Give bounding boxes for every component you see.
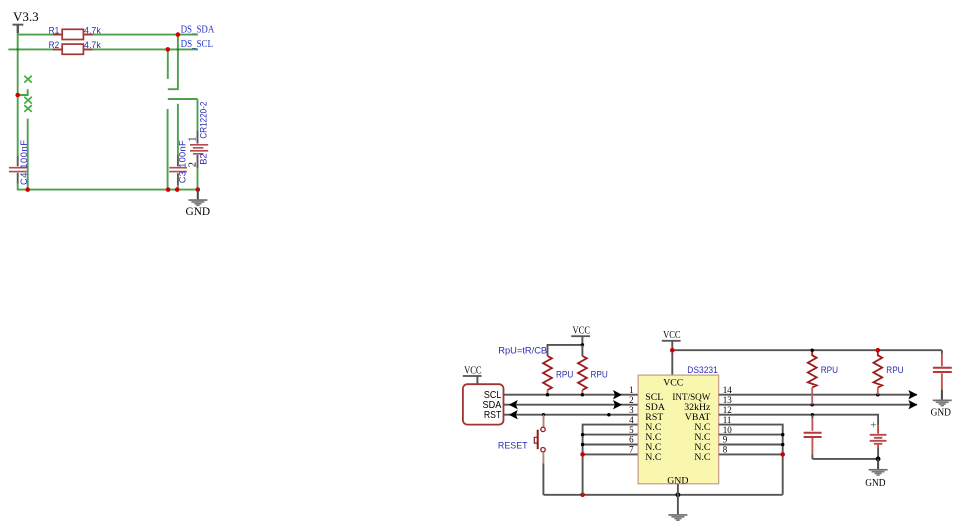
pushbutton RESET — [534, 415, 545, 464]
junction dot cap branch — [811, 413, 815, 417]
resistor R2 — [53, 44, 93, 54]
svg-text:14: 14 — [723, 385, 733, 395]
resistor RPU (2) — [578, 356, 587, 390]
svg-text:R1: R1 — [49, 25, 60, 35]
junction dot RST/reset branch — [542, 413, 546, 417]
svg-text:N.C: N.C — [645, 452, 661, 463]
wire pin13 (32kHz) — [719, 404, 917, 406]
junction dot RPU3 top — [810, 348, 814, 352]
arrow left (RST out) — [509, 410, 518, 419]
svg-text:4: 4 — [629, 415, 634, 425]
svg-text:GND: GND — [931, 407, 952, 418]
svg-text:6: 6 — [629, 435, 634, 445]
svg-text:2: 2 — [187, 162, 198, 167]
ground below battery — [865, 459, 887, 489]
svg-text:CR1220-2: CR1220-2 — [198, 102, 208, 139]
svg-text:V3.3: V3.3 — [13, 9, 39, 24]
svg-text:1: 1 — [629, 385, 634, 395]
wire SCL row — [504, 394, 639, 396]
svg-text:1: 1 — [187, 137, 198, 142]
svg-text:+: + — [870, 419, 876, 431]
junction dot battery bottom — [876, 457, 881, 462]
connector box SCL/SDA/RST — [463, 384, 504, 424]
wire: elbow at left rail junction — [18, 89, 28, 95]
wire: bottom rail — [543, 494, 782, 496]
svg-text:2: 2 — [629, 395, 634, 405]
wire: vertical x=167.6 down to bottom rail — [167, 109, 169, 190]
arrow left (SDA out) — [509, 400, 518, 409]
svg-text:GND: GND — [186, 206, 211, 218]
wire pin7 stub — [583, 453, 639, 455]
power symbol V3.3 — [13, 9, 39, 33]
resistor RPU (4) — [873, 352, 882, 387]
junction dot RPU3 bottom — [810, 403, 814, 407]
svg-text:13: 13 — [723, 395, 733, 405]
svg-text:VCC: VCC — [663, 378, 683, 389]
wire: VCC stem down to RPU2 — [581, 345, 583, 356]
wire pin9 stub — [719, 444, 783, 446]
arrow right pin13 — [908, 400, 917, 409]
wire pin14 (INT/SQW) — [719, 394, 917, 396]
ground GND (top-left circuit) — [186, 190, 211, 219]
junction dot RPU1 bottom — [546, 393, 550, 397]
svg-text:B2: B2 — [198, 153, 208, 164]
wire: VCC rail to the right — [672, 349, 942, 351]
junction dot GND stem — [676, 492, 681, 497]
wire pin12 (VBAT) to battery — [719, 415, 878, 426]
svg-text:DS_SDA: DS_SDA — [181, 25, 215, 36]
svg-text:RPU: RPU — [821, 365, 838, 375]
wire crossing shade (DS_SCL x vertical) — [177, 48, 179, 50]
arrow right (SCL into pin1) — [613, 390, 622, 399]
resistor RPU (3) — [808, 352, 817, 387]
svg-text:5: 5 — [629, 425, 634, 435]
junction dot (red) on bottom rail — [580, 493, 585, 498]
svg-text:9: 9 — [723, 435, 728, 445]
junction dot on left rail — [15, 93, 20, 98]
power symbol VCC (above RPU pull-ups) — [571, 326, 590, 345]
resistor RPU (1) — [543, 356, 552, 390]
battery (backup cell) — [870, 419, 887, 459]
svg-text:RPU: RPU — [556, 369, 573, 379]
capacitor (VCC decoupling, far right) — [933, 350, 952, 399]
svg-text:8: 8 — [723, 445, 728, 455]
wire: GND stem below IC — [677, 484, 679, 514]
svg-text:DS3231: DS3231 — [687, 365, 718, 376]
svg-text:RpU=tR/CB: RpU=tR/CB — [498, 345, 547, 355]
wire pin8 stub — [719, 453, 783, 455]
wire pin5 stub — [583, 434, 639, 436]
wire: DS_SDA horizontal — [18, 34, 198, 36]
wire: second vertical down to bottom rail — [27, 119, 29, 190]
svg-text:VCC: VCC — [573, 326, 591, 337]
wire: cap bottom to battery bottom — [812, 458, 878, 460]
svg-text:RESET: RESET — [498, 440, 528, 451]
capacitor C4 (inline on left rail) — [9, 156, 27, 184]
svg-text:R2: R2 — [49, 40, 60, 50]
svg-text:10: 10 — [723, 425, 733, 435]
wire pin10 stub — [719, 434, 783, 436]
svg-text:C4 100nF: C4 100nF — [19, 140, 29, 185]
junction dot (red) at VCC stem — [670, 348, 675, 353]
no-connect X mark 2 — [24, 97, 32, 104]
svg-text:12: 12 — [723, 405, 732, 415]
wire: vertical from DS_SDA junction down with elbow — [168, 35, 178, 90]
ground far right — [931, 400, 952, 419]
svg-text:11: 11 — [723, 415, 732, 425]
svg-text:VCC: VCC — [663, 330, 681, 341]
wire RST row — [504, 414, 639, 416]
junction dot pin8 (red) — [780, 452, 785, 457]
svg-text:7: 7 — [629, 445, 634, 455]
junction dot RPU4 top (red) — [876, 348, 881, 353]
wire crossing shade (DS_SCL x rail) — [17, 48, 19, 50]
junction dot on DS_SDA — [176, 32, 181, 37]
svg-text:GND: GND — [865, 478, 886, 489]
resistor R1 — [53, 29, 93, 39]
junction dot on DS_SCL — [166, 47, 171, 52]
junction dot pin5 — [581, 433, 585, 437]
wire: battery group top horizontal — [168, 98, 198, 100]
svg-text:RST: RST — [484, 410, 501, 421]
ground symbol below IC — [668, 514, 687, 521]
battery B2 — [190, 99, 208, 190]
wire pin6 stub — [583, 444, 639, 446]
wire: from VCC junction left and down to RPU1 — [548, 345, 583, 356]
wire SDA row — [504, 404, 639, 406]
op-amp U1 DS3231 IC body — [638, 375, 719, 487]
wire: bottom-left rail corner — [18, 183, 198, 189]
power symbol VCC (above DS3231) — [662, 330, 681, 375]
arrow right pin14 — [908, 390, 917, 399]
junction dot pin7 (red) — [580, 452, 585, 457]
junction dot on RST near IC — [607, 413, 611, 417]
no-connect X mark 1 — [24, 76, 32, 83]
junction dot bottom of second vertical — [25, 187, 30, 192]
wire: pin4 corner + vertical to rail — [583, 425, 639, 495]
junction dot RPU2 bottom — [581, 393, 585, 397]
junction dot at VCC stem — [581, 343, 585, 347]
svg-text:DS_SCL: DS_SCL — [181, 39, 213, 50]
junction dot RPU4 bottom — [876, 393, 880, 397]
wire: vertical from DS_SCL junction down — [167, 49, 169, 79]
svg-text:N.C: N.C — [694, 452, 710, 463]
svg-text:3: 3 — [629, 405, 634, 415]
capacitor C3 (inline) — [169, 104, 187, 190]
wire: DS_SCL horizontal — [8, 48, 198, 50]
wire: reset down to bottom rail — [542, 464, 544, 495]
junction dots on bottom rail — [166, 187, 171, 192]
svg-text:4.7k: 4.7k — [84, 25, 101, 35]
svg-text:4.7k: 4.7k — [84, 40, 101, 50]
svg-text:C3 100nF: C3 100nF — [177, 140, 187, 183]
svg-text:RPU: RPU — [591, 369, 608, 379]
junction dot pin6 — [581, 443, 585, 447]
wire pin11 corner + vertical — [719, 425, 783, 495]
svg-text:VCC: VCC — [464, 365, 482, 376]
junction dot pin10 — [781, 433, 785, 437]
power symbol VCC (above connector) — [463, 365, 482, 384]
capacitor (VBAT decoupling) — [804, 415, 822, 459]
arrow right (SDA into pin2) — [613, 400, 622, 409]
no-connect X mark 3 — [24, 105, 32, 112]
junction dot pin9 — [781, 443, 785, 447]
svg-text:RPU: RPU — [886, 365, 903, 375]
wire: left V3.3 rail vertical — [17, 33, 19, 156]
